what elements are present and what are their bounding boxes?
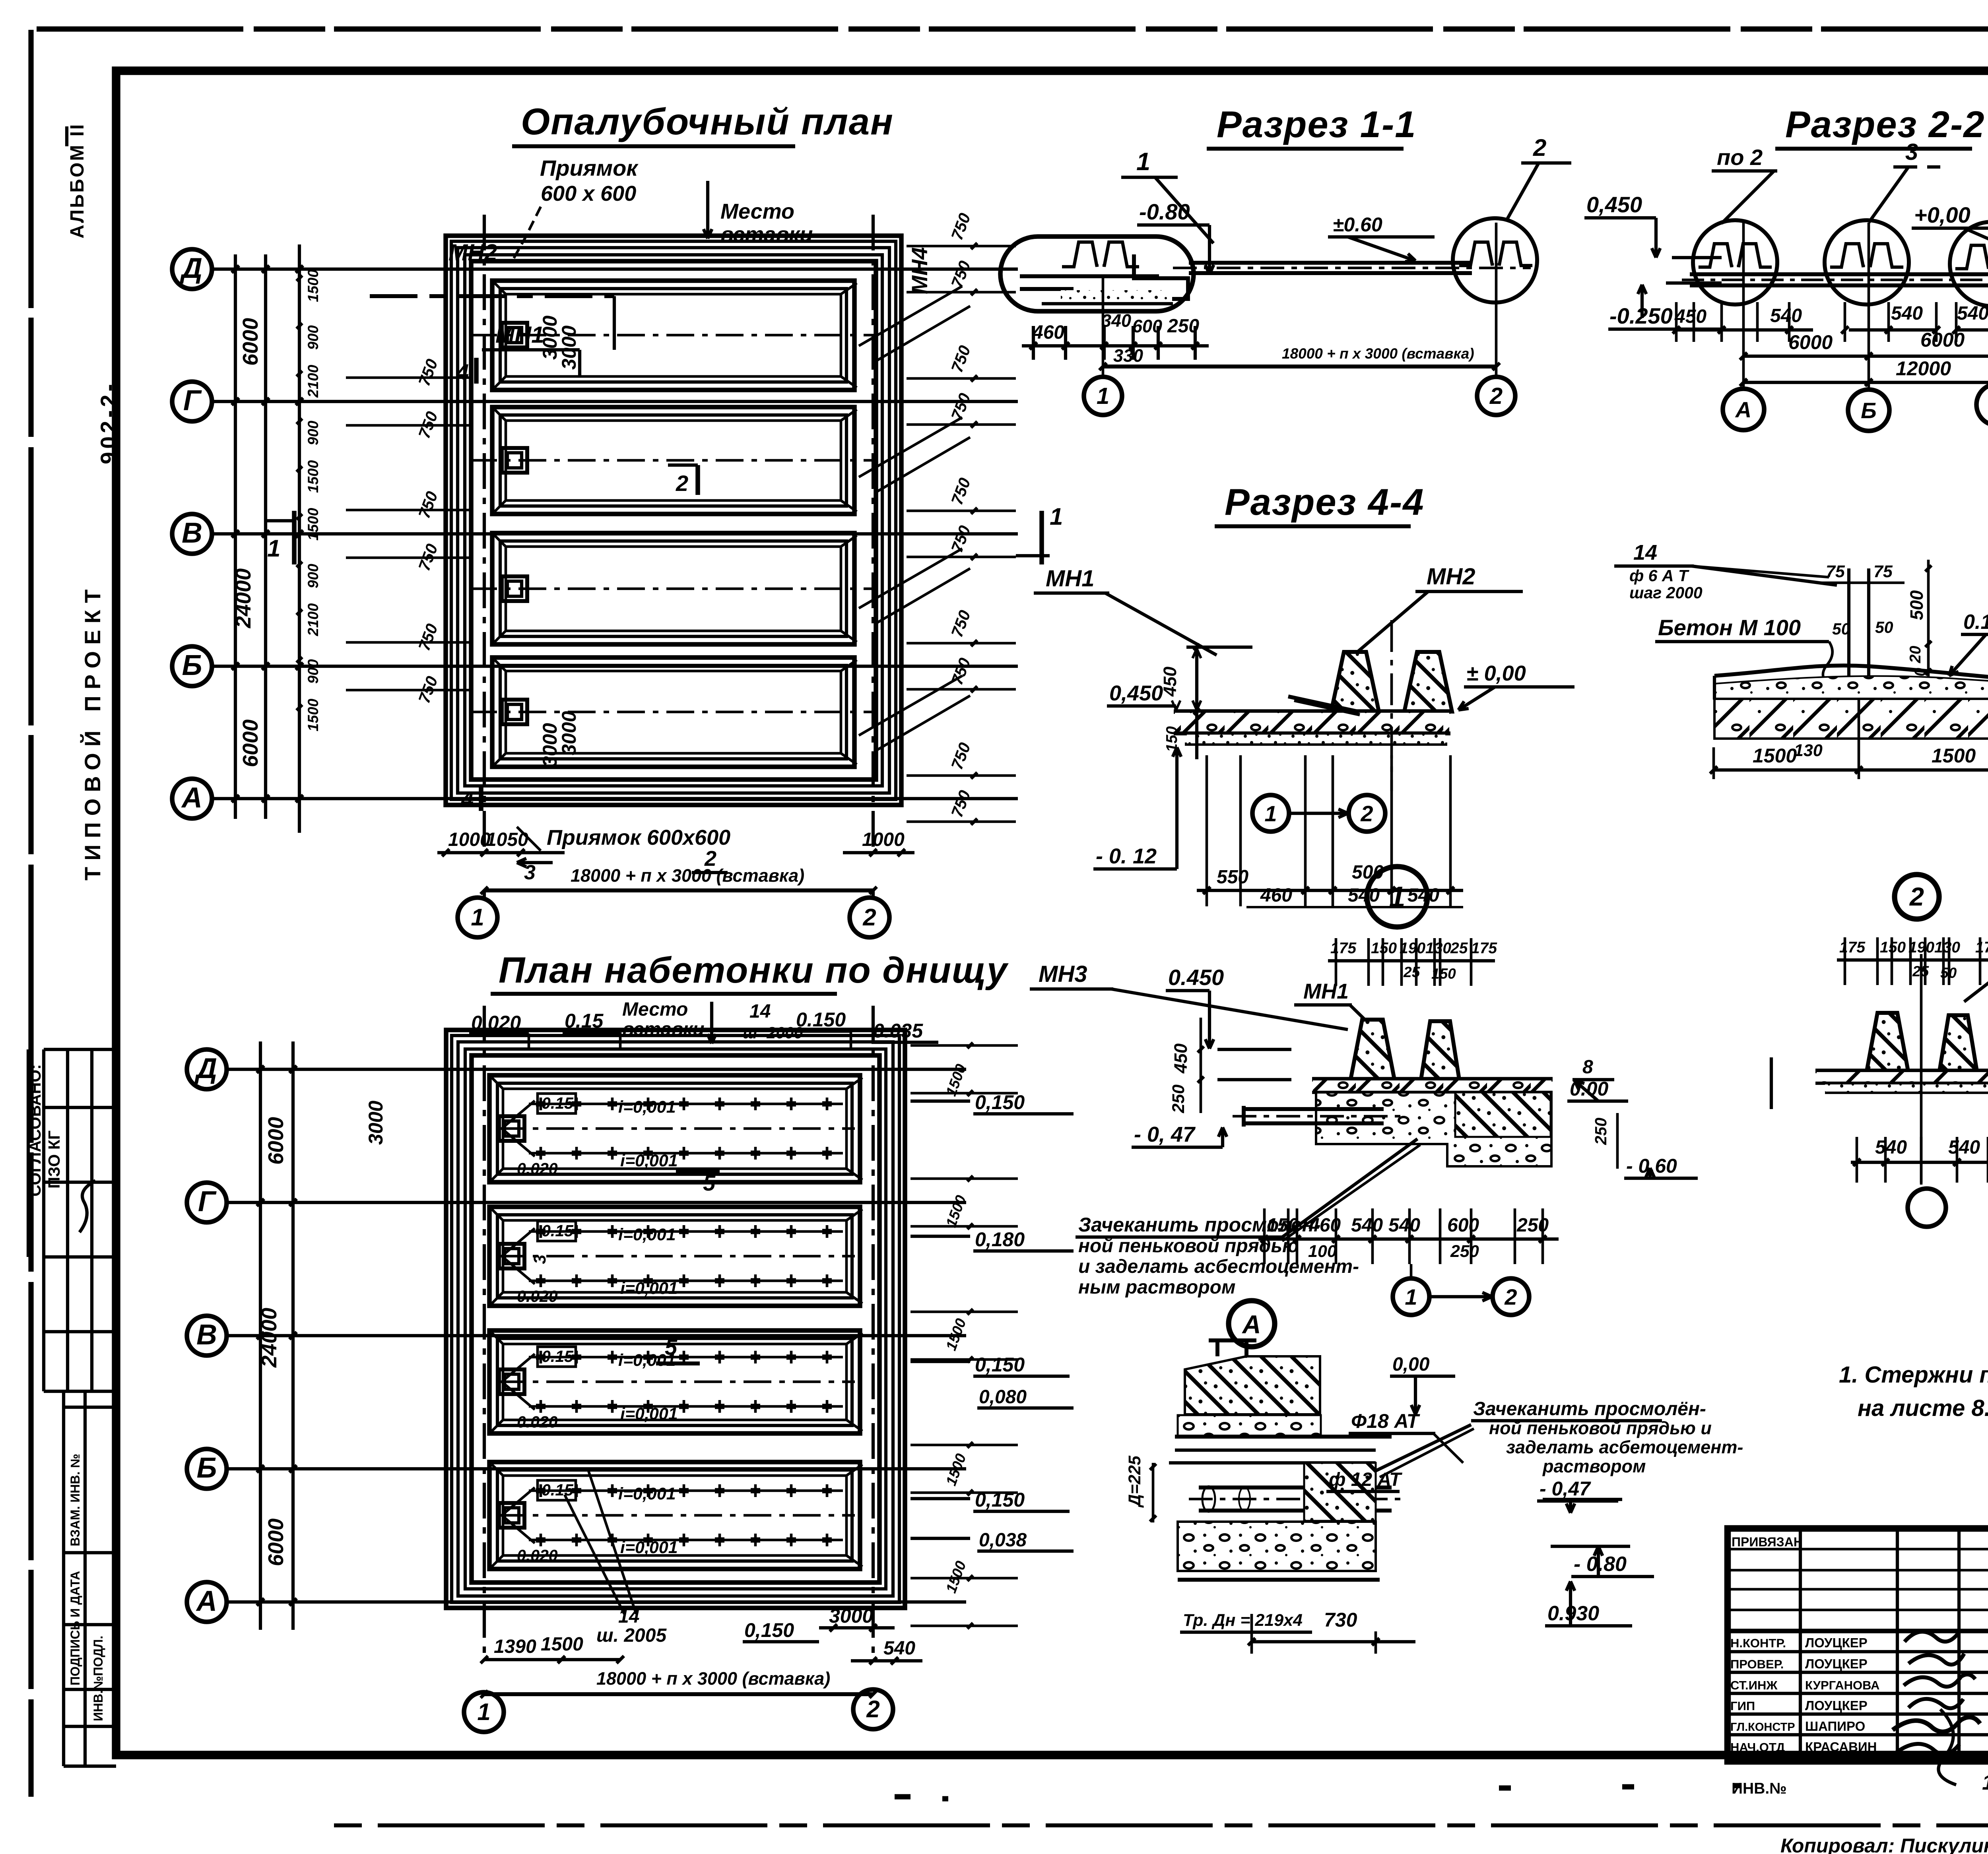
svg-text:150: 150: [1880, 939, 1906, 956]
svg-text:ВЗАМ. ИНВ. №: ВЗАМ. ИНВ. №: [68, 1454, 82, 1546]
top plan column axes: [483, 215, 486, 849]
title block left grid: [1728, 1548, 1988, 1551]
razrez 2-2 grid circles: [1723, 389, 1764, 430]
svg-text:900: 900: [305, 421, 321, 445]
right diagonal leaders top plan: [859, 286, 962, 346]
razrez 1-1 oval slab: [1020, 274, 1159, 278]
svg-text:1: 1: [1050, 503, 1063, 530]
svg-text:1: 1: [267, 535, 280, 562]
uzel 2 top dims: [1837, 958, 1988, 962]
uzel 1 right dims: [1616, 1113, 1619, 1169]
svg-text:14: 14: [749, 1001, 771, 1022]
svg-text:340: 340: [1101, 310, 1131, 331]
svg-text:1. Стержни поз. 14 учтены в: 1. Стержни поз. 14 учтены в спецификации: [1839, 1362, 1988, 1388]
svg-text:25: 25: [1450, 940, 1468, 957]
svg-text:900: 900: [305, 325, 321, 350]
svg-text:20: 20: [1907, 646, 1924, 663]
svg-text:ЛОУЦКЕР: ЛОУЦКЕР: [1805, 1698, 1868, 1713]
razrez 1-1 dims below: [1032, 326, 1035, 360]
svg-text:175: 175: [1471, 940, 1497, 957]
svg-text:Бетон М 100: Бетон М 100: [1658, 615, 1801, 640]
svg-text:150: 150: [1371, 940, 1397, 957]
svg-text:Б: Б: [182, 650, 202, 681]
uzel 1 walls: [1351, 1020, 1394, 1079]
svg-text:190: 190: [1400, 940, 1425, 957]
svg-text:НАЧ.ОТД: НАЧ.ОТД: [1730, 1740, 1785, 1754]
svg-text:450: 450: [1171, 1043, 1191, 1074]
margin approval table: [42, 1049, 45, 1391]
svg-text:шаг 2000: шаг 2000: [1629, 584, 1703, 602]
svg-text:2: 2: [1504, 1284, 1517, 1309]
bottom plan priyamki: [499, 1116, 524, 1141]
svg-text:0,450: 0,450: [1586, 192, 1642, 217]
svg-text:Приямок: Приямок: [540, 155, 639, 180]
svg-text:175: 175: [1975, 939, 1988, 956]
svg-text:1: 1: [1136, 148, 1150, 176]
svg-text:250: 250: [1450, 1242, 1479, 1261]
uzel A base: [1178, 1522, 1376, 1571]
svg-text:450: 450: [1674, 306, 1706, 327]
grid lines top plan: [212, 268, 1018, 271]
svg-text:0.020: 0.020: [517, 1546, 558, 1565]
svg-text:900: 900: [305, 564, 321, 588]
svg-text:0,150: 0,150: [975, 1354, 1025, 1376]
razrez 2-2 axes: [1742, 223, 1745, 390]
svg-text:540: 540: [1348, 885, 1380, 906]
svg-text:130: 130: [1425, 940, 1451, 957]
svg-text:Место: Место: [720, 200, 794, 223]
svg-text:460: 460: [1260, 885, 1292, 906]
svg-text:1500: 1500: [1932, 745, 1976, 767]
razrez 1-1 circle ribs: [1459, 242, 1493, 266]
svg-text:5: 5: [703, 1170, 716, 1195]
callout circle 2: [1895, 875, 1939, 919]
svg-text:902-2-: 902-2-: [96, 381, 121, 464]
svg-text:500: 500: [1906, 590, 1927, 620]
svg-text:330: 330: [1113, 345, 1143, 366]
svg-text:18000 + п х 3000 (вставка): 18000 + п х 3000 (вставка): [571, 865, 804, 886]
svg-text:2100: 2100: [305, 365, 321, 398]
svg-text:6000: 6000: [1788, 331, 1833, 353]
svg-text:250: 250: [1167, 316, 1199, 337]
svg-text:1500: 1500: [305, 460, 321, 493]
cut mark 1 left: [292, 511, 297, 564]
svg-text:Г: Г: [183, 385, 202, 417]
razrez 4-4 walls: [1331, 652, 1379, 712]
svg-text:i=0,001: i=0,001: [618, 1225, 676, 1244]
top plan sections: [492, 281, 854, 390]
svg-text:100: 100: [1308, 1242, 1337, 1261]
uzel 1 base block: [1316, 1092, 1551, 1166]
svg-text:В: В: [196, 1319, 217, 1351]
razrez 1-1 long slab: [1189, 261, 1471, 265]
uzel 1 level lines: [1217, 1048, 1291, 1051]
bottom plan column axes: [483, 1006, 486, 1654]
svg-text:Б: Б: [1861, 398, 1877, 423]
bottom plan sections: [489, 1075, 860, 1182]
svg-text:± 0,00: ± 0,00: [1466, 661, 1526, 685]
svg-text:КУРГАНОВА: КУРГАНОВА: [1805, 1678, 1879, 1692]
svg-text:540: 540: [1388, 1215, 1420, 1236]
svg-text:КРАСАВИН: КРАСАВИН: [1805, 1740, 1877, 1754]
svg-text:ТИПОВОЙ ПРОЕКТ: ТИПОВОЙ ПРОЕКТ: [80, 583, 105, 880]
grid circles bottom plan: [187, 1049, 227, 1089]
svg-text:4: 4: [461, 787, 474, 812]
svg-text:ПРИВЯЗАН: ПРИВЯЗАН: [1732, 1535, 1803, 1549]
svg-text:3000: 3000: [539, 723, 561, 767]
svg-text:А: А: [1242, 1310, 1261, 1339]
svg-text:0,180: 0,180: [975, 1228, 1025, 1251]
svg-text:50: 50: [1940, 965, 1957, 981]
svg-text:24000: 24000: [231, 568, 255, 628]
svg-text:6000: 6000: [239, 719, 262, 767]
svg-text:1: 1: [1405, 1284, 1417, 1309]
razrez 5-5 wall strips: [1847, 568, 1850, 690]
svg-text:±0.60: ±0.60: [1333, 213, 1382, 236]
svg-text:СОГЛАСОВАНО:: СОГЛАСОВАНО:: [26, 1064, 44, 1197]
razrez 5-5 vertical dim stack: [1927, 560, 1930, 692]
svg-text:175: 175: [1839, 939, 1866, 956]
svg-text:+0,00: +0,00: [1914, 202, 1971, 227]
svg-text:0,150: 0,150: [975, 1091, 1025, 1113]
svg-text:1500: 1500: [541, 1634, 583, 1655]
svg-text:- 0.80: - 0.80: [1574, 1553, 1627, 1576]
svg-text:6000: 6000: [1920, 329, 1965, 351]
svg-text:Тр. Дн = 219х4: Тр. Дн = 219х4: [1183, 1611, 1303, 1630]
svg-text:250: 250: [1592, 1117, 1610, 1145]
top plan left dim lines: [234, 254, 237, 819]
svg-text:А: А: [196, 1585, 217, 1617]
razrez 1-1 oval ribs: [1062, 242, 1097, 267]
svg-text:1: 1: [471, 904, 484, 931]
svg-text:730: 730: [1324, 1609, 1357, 1631]
svg-text:ГИП: ГИП: [1730, 1699, 1755, 1713]
svg-text:План набетонки по днищу: План набетонки по днищу: [499, 950, 1009, 991]
svg-text:2: 2: [676, 471, 688, 496]
svg-text:540: 540: [883, 1638, 915, 1659]
svg-text:5: 5: [665, 1334, 678, 1359]
svg-text:3000: 3000: [365, 1101, 387, 1145]
svg-text:МН3: МН3: [1039, 961, 1087, 987]
svg-text:6000: 6000: [239, 318, 262, 366]
svg-text:0,00: 0,00: [1392, 1354, 1430, 1375]
sheet outer border top: [37, 26, 1988, 31]
svg-text:Н.КОНТР.: Н.КОНТР.: [1730, 1636, 1786, 1650]
svg-text:1: 1: [477, 1699, 490, 1725]
svg-text:1000: 1000: [448, 829, 491, 850]
svg-text:3000: 3000: [558, 711, 580, 755]
svg-text:заделать асбетоцемент-: заделать асбетоцемент-: [1506, 1437, 1743, 1457]
razrez 1-1 oval detail: [1000, 237, 1194, 311]
svg-text:6000: 6000: [264, 1117, 288, 1165]
svg-text:ш=2000: ш=2000: [743, 1024, 803, 1042]
svg-text:АЛЬБОМ II: АЛЬБОМ II: [67, 123, 88, 239]
bottom plan left dim lines: [259, 1041, 262, 1630]
svg-text:0.020: 0.020: [517, 1160, 558, 1178]
svg-text:460: 460: [1032, 322, 1064, 343]
svg-text:50: 50: [1832, 620, 1850, 638]
sheet outer border left: [28, 30, 33, 1797]
svg-text:ПОДПИСЬ И ДАТА: ПОДПИСЬ И ДАТА: [68, 1571, 82, 1685]
svg-text:Д=225: Д=225: [1125, 1455, 1144, 1508]
sheet outer border bottom: [334, 1823, 1988, 1827]
svg-text:14: 14: [1633, 541, 1657, 564]
svg-text:540: 540: [1948, 1137, 1980, 1158]
svg-text:А: А: [1735, 397, 1751, 422]
svg-text:Копировал: Пискулина: Копировал: Пискулина: [1780, 1835, 1988, 1854]
svg-text:i=0,001: i=0,001: [620, 1279, 678, 1298]
svg-text:540: 540: [1351, 1215, 1383, 1236]
uzel A mid lines: [1175, 1435, 1392, 1439]
razrez 4-4 dims below: [1206, 755, 1208, 906]
uzel 1 view circles: [1393, 1278, 1429, 1315]
razrez 5-5 slab profile: [1714, 623, 1988, 682]
svg-text:50: 50: [1875, 618, 1893, 636]
svg-text:Ф18 АТ: Ф18 АТ: [1351, 1410, 1421, 1432]
svg-text:1: 1: [1264, 801, 1277, 826]
svg-text:МН1: МН1: [1303, 979, 1349, 1003]
razrez 2-2 dim 12000 line: [1743, 381, 1988, 384]
svg-text:0.15: 0.15: [542, 1347, 574, 1365]
column circle 2 bottom plan: [853, 1689, 893, 1729]
svg-text:460: 460: [1309, 1215, 1341, 1236]
svg-text:ГЛ.КОНСТР: ГЛ.КОНСТР: [1730, 1721, 1795, 1734]
uzel 2 bottom circle: [1908, 1189, 1946, 1227]
svg-text:1: 1: [1097, 383, 1109, 409]
column circle 2 top plan: [872, 890, 875, 899]
svg-text:0,450: 0,450: [1109, 681, 1163, 705]
svg-text:2: 2: [1533, 134, 1546, 161]
svg-text:0.150: 0.150: [796, 1008, 846, 1031]
svg-text:600: 600: [1132, 316, 1162, 336]
razrez 4-4 view circles: [1252, 795, 1289, 832]
svg-text:2: 2: [866, 1696, 879, 1722]
svg-text:0.15: 0.15: [542, 1094, 574, 1112]
svg-text:0.020: 0.020: [517, 1413, 558, 1431]
svg-text:24000: 24000: [257, 1308, 281, 1368]
svg-text:0.930: 0.930: [1547, 1602, 1599, 1625]
svg-text:ПЗО КГ: ПЗО КГ: [45, 1131, 63, 1189]
uzel 2 slab: [1815, 1069, 1988, 1073]
callout circle A: [1229, 1301, 1275, 1347]
svg-text:540: 540: [1891, 303, 1923, 324]
svg-text:190: 190: [1908, 939, 1934, 956]
column circle 1 top plan: [483, 890, 486, 899]
svg-text:150: 150: [1431, 966, 1456, 982]
svg-text:250: 250: [1516, 1215, 1549, 1236]
uzel A top wall: [1185, 1356, 1320, 1414]
svg-text:i=0,001: i=0,001: [620, 1404, 678, 1423]
svg-text:75: 75: [1826, 562, 1845, 581]
svg-text:1390: 1390: [494, 1636, 536, 1657]
svg-text:130: 130: [1794, 741, 1823, 760]
uzel 1 pipe: [1244, 1107, 1384, 1111]
svg-text:2: 2: [1360, 801, 1373, 826]
svg-text:i=0,001: i=0,001: [620, 1151, 678, 1170]
svg-text:550: 550: [1217, 867, 1248, 888]
margin stamp table bottom: [62, 1391, 65, 1766]
svg-text:ИНВ.№ПОДЛ.: ИНВ.№ПОДЛ.: [91, 1636, 105, 1721]
svg-text:ЛОУЦКЕР: ЛОУЦКЕР: [1805, 1656, 1868, 1671]
uzel 2 walls: [1867, 1013, 1908, 1071]
svg-text:2100: 2100: [305, 603, 321, 636]
svg-text:3: 3: [524, 861, 536, 884]
razrez 4-4 wedge: [1288, 696, 1358, 712]
svg-text:Разрез 4-4: Разрез 4-4: [1225, 481, 1425, 523]
svg-text:0.020: 0.020: [517, 1287, 558, 1305]
razrez 4-4 slab: [1174, 709, 1450, 714]
razrez 2-2 slab: [1690, 272, 1988, 276]
title block outer: [1728, 1528, 1988, 1761]
uzel 1 slab: [1312, 1077, 1553, 1082]
svg-text:Зачеканить просмолён-: Зачеканить просмолён-: [1473, 1398, 1706, 1420]
razrez 2-2 dims: [1675, 302, 1678, 342]
svg-text:0,150: 0,150: [744, 1619, 794, 1641]
svg-text:Разрез 1-1: Разрез 1-1: [1217, 103, 1417, 145]
svg-text:0.15: 0.15: [542, 1222, 574, 1240]
title block signatures: [1905, 1631, 1960, 1642]
svg-text:540: 540: [1770, 305, 1802, 326]
svg-text:0.450: 0.450: [1168, 965, 1224, 990]
svg-text:- 0, 47: - 0, 47: [1134, 1123, 1196, 1146]
uzel 1 top dims: [1328, 959, 1495, 962]
svg-text:540: 540: [1875, 1137, 1907, 1158]
svg-text:ШАПИРО: ШАПИРО: [1805, 1719, 1865, 1734]
svg-text:0,150: 0,150: [975, 1489, 1025, 1511]
margin signature scribble: [80, 1181, 95, 1232]
uzel A left dim: [1152, 1463, 1155, 1522]
svg-text:Б: Б: [197, 1452, 217, 1484]
svg-text:ИНВ.№: ИНВ.№: [1732, 1780, 1787, 1797]
svg-text:0,080: 0,080: [979, 1387, 1027, 1408]
svg-text:1: 1: [1389, 880, 1405, 913]
razrez 1-1 detail circle 2: [1453, 218, 1537, 303]
razrez 5-5 nabetonka fill: [1714, 632, 1988, 698]
razrez 2-2 dim 6000 line: [1743, 355, 1988, 358]
svg-text:130: 130: [1934, 939, 1960, 956]
svg-text:18155-02: 18155-02: [1982, 1771, 1988, 1794]
svg-text:по 2: по 2: [1717, 145, 1763, 170]
svg-text:1500: 1500: [1753, 745, 1797, 767]
razrez 2-2 detail circles: [1693, 220, 1777, 304]
svg-text:1000: 1000: [862, 829, 905, 850]
column circle 1 bottom plan: [483, 1693, 486, 1694]
top plan outer walls: [446, 236, 901, 805]
svg-text:75: 75: [1873, 562, 1893, 581]
svg-text:25: 25: [1403, 964, 1421, 980]
svg-text:ф 6 А Т: ф 6 А Т: [1629, 566, 1689, 585]
svg-text:2: 2: [862, 904, 876, 931]
svg-text:3: 3: [1905, 139, 1918, 165]
svg-text:- 0,47: - 0,47: [1540, 1478, 1591, 1500]
svg-text:540: 540: [1957, 303, 1988, 324]
svg-text:Место: Место: [622, 999, 688, 1020]
top plan section centerlines: [469, 334, 875, 337]
svg-text:Д: Д: [179, 252, 202, 284]
svg-text:8: 8: [1582, 1057, 1593, 1078]
razrez 1-1 axis circles: [1102, 278, 1105, 377]
svg-text:18000 + п х 3000 (вставка): 18000 + п х 3000 (вставка): [1282, 345, 1474, 362]
stray dashes bottom: [895, 1794, 911, 1799]
svg-text:ЛОУЦКЕР: ЛОУЦКЕР: [1805, 1635, 1868, 1650]
svg-text:МН1: МН1: [1046, 566, 1094, 591]
svg-text:i=0,001: i=0,001: [618, 1484, 676, 1503]
svg-text:1500: 1500: [305, 269, 321, 302]
svg-text:А: А: [181, 782, 202, 814]
svg-text:В: В: [182, 517, 202, 549]
svg-text:175: 175: [1330, 940, 1357, 957]
svg-text:600: 600: [1447, 1215, 1479, 1236]
right dim strip bottom plan: [911, 1100, 970, 1103]
svg-text:ПРОВЕР.: ПРОВЕР.: [1730, 1657, 1784, 1671]
uzel 1 bottom dims: [1258, 1237, 1559, 1241]
top plan priyamki: [502, 323, 527, 347]
bottom plan outer walls: [446, 1030, 905, 1608]
svg-text:18000 + п х 3000 (вставка): 18000 + п х 3000 (вставка): [596, 1668, 830, 1689]
title block main divider: [1728, 1629, 1988, 1633]
svg-text:4: 4: [456, 359, 469, 384]
cut mark 1 right: [1039, 511, 1044, 564]
svg-text:1500: 1500: [305, 698, 321, 731]
svg-text:i=0,001: i=0,001: [618, 1098, 676, 1117]
razrez 2-2 ribs: [1699, 244, 1732, 267]
uzel 1 recess hatch: [1455, 1092, 1551, 1137]
svg-text:3000: 3000: [558, 326, 580, 370]
svg-text:0,038: 0,038: [979, 1530, 1027, 1551]
svg-text:Разрез 2-2: Разрез 2-2: [1785, 103, 1985, 145]
svg-text:на листе 8.: на листе 8.: [1858, 1395, 1988, 1421]
razrez 5-5 ground layer: [1714, 699, 1988, 739]
svg-text:250: 250: [1169, 1084, 1188, 1113]
svg-text:3000: 3000: [539, 316, 561, 360]
svg-text:-0.80: -0.80: [1139, 199, 1190, 224]
svg-text:i=0,001: i=0,001: [620, 1538, 678, 1557]
svg-text:600 х 600: 600 х 600: [541, 182, 636, 206]
right dim strip top plan: [907, 245, 1016, 248]
callout circle 1: [1367, 867, 1427, 927]
svg-text:0.150: 0.150: [1963, 611, 1988, 634]
svg-text:0.15: 0.15: [542, 1481, 574, 1499]
svg-text:3: 3: [530, 1255, 549, 1264]
bottom plan section interior marks: [497, 1127, 855, 1130]
dim 450 rotated razrez 4-4: [1186, 646, 1252, 649]
svg-text:Г: Г: [198, 1186, 217, 1218]
svg-text:12000: 12000: [1896, 357, 1951, 380]
svg-text:900: 900: [305, 659, 321, 684]
uzel 2 bottom dims: [1851, 1161, 1988, 1164]
svg-text:Д: Д: [194, 1053, 217, 1084]
uzel A pipe: [1199, 1486, 1392, 1489]
svg-text:450: 450: [1160, 667, 1180, 697]
svg-text:150: 150: [1267, 1215, 1299, 1236]
uzel A pebble band: [1178, 1415, 1321, 1436]
svg-text:1500: 1500: [305, 508, 321, 541]
svg-text:Опалубочный план: Опалубочный план: [521, 101, 894, 142]
grid lines bottom plan: [227, 1068, 966, 1071]
svg-text:раствором: раствором: [1542, 1456, 1646, 1476]
svg-text:2: 2: [1489, 383, 1503, 409]
svg-text:СТ.ИНЖ: СТ.ИНЖ: [1730, 1678, 1778, 1692]
svg-text:6000: 6000: [264, 1518, 288, 1566]
svg-text:2: 2: [1909, 882, 1924, 911]
svg-text:- 0. 12: - 0. 12: [1096, 844, 1157, 868]
grid circles top plan: [172, 249, 212, 289]
svg-text:МН2: МН2: [1427, 564, 1475, 590]
svg-text:ным раствором: ным раствором: [1078, 1277, 1235, 1298]
razrez 4-4 axis: [1390, 620, 1393, 791]
svg-text:Приямок 600х600: Приямок 600х600: [547, 826, 730, 849]
svg-text:ш. 2005: ш. 2005: [596, 1625, 667, 1646]
